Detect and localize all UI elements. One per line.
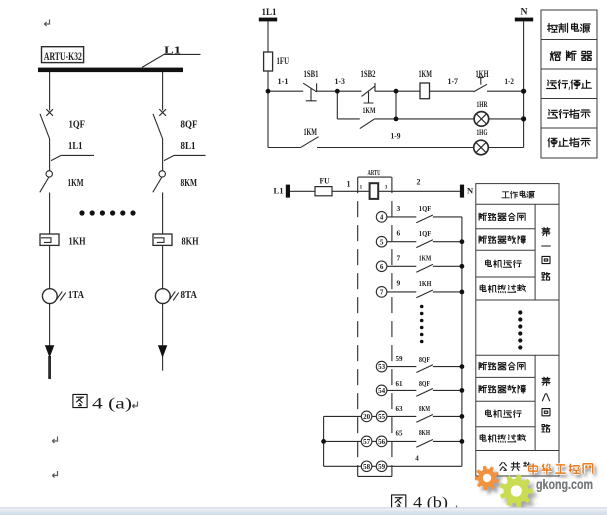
svg-text:9: 9 [397, 279, 401, 288]
svg-text:1HG: 1HG [477, 127, 488, 137]
svg-text:1-3: 1-3 [335, 76, 346, 86]
svg-text:1QF: 1QF [419, 204, 432, 213]
svg-text:1-7: 1-7 [448, 76, 459, 86]
svg-text:6: 6 [397, 229, 401, 238]
svg-text:63: 63 [396, 405, 404, 413]
svg-text:1-2: 1-2 [505, 76, 515, 86]
svg-text:6: 6 [380, 263, 384, 271]
svg-text:8TA: 8TA [181, 290, 198, 301]
svg-text:1SB1: 1SB1 [304, 70, 319, 80]
svg-text:1-9: 1-9 [391, 130, 401, 140]
svg-text:1TA: 1TA [68, 290, 84, 301]
svg-text:1KM: 1KM [363, 105, 376, 115]
svg-text:1HR: 1HR [477, 99, 489, 109]
svg-text:L1: L1 [164, 44, 181, 56]
svg-text:1KM: 1KM [68, 178, 84, 189]
svg-text:1L1: 1L1 [68, 141, 83, 152]
svg-text:1QF: 1QF [69, 120, 86, 131]
svg-text:3: 3 [397, 204, 401, 213]
svg-text:ARTU: ARTU [368, 169, 381, 177]
svg-text:1KH: 1KH [419, 279, 432, 288]
svg-text:8QF: 8QF [419, 379, 430, 388]
svg-text:8L1: 8L1 [181, 141, 196, 152]
svg-text:1-1: 1-1 [278, 76, 289, 86]
svg-text:4: 4 [380, 214, 384, 222]
svg-text:7: 7 [397, 253, 401, 262]
svg-text:1QF: 1QF [419, 229, 432, 238]
svg-text:1L1: 1L1 [262, 8, 277, 18]
svg-text:2: 2 [417, 178, 421, 187]
svg-text:58: 58 [363, 463, 371, 471]
svg-text:61: 61 [396, 380, 404, 388]
svg-text:L1: L1 [274, 185, 284, 195]
svg-text:3: 3 [385, 185, 388, 191]
svg-text:1SB2: 1SB2 [361, 70, 376, 80]
svg-text:8KH: 8KH [182, 237, 199, 248]
svg-text:8QF: 8QF [181, 120, 198, 131]
svg-text:FU: FU [320, 175, 330, 185]
svg-text:4 (a): 4 (a) [92, 396, 132, 413]
svg-text:1KH: 1KH [69, 237, 86, 248]
svg-text:1FU: 1FU [277, 57, 290, 67]
svg-text:N: N [521, 8, 528, 18]
svg-text:57: 57 [363, 438, 371, 446]
svg-text:5: 5 [380, 238, 384, 246]
svg-text:1: 1 [347, 179, 351, 188]
svg-text:ARTU-K32: ARTU-K32 [44, 51, 82, 63]
svg-text:1KM: 1KM [419, 254, 432, 263]
svg-text:56: 56 [378, 438, 386, 446]
svg-text:1KH: 1KH [476, 70, 489, 80]
svg-text:59: 59 [378, 463, 386, 471]
svg-text:4: 4 [415, 455, 419, 463]
svg-text:7: 7 [380, 289, 384, 297]
svg-text:8QF: 8QF [419, 355, 430, 364]
svg-text:gkong.com: gkong.com [536, 477, 593, 492]
svg-text:8KM: 8KM [181, 178, 198, 189]
svg-text:1: 1 [360, 185, 363, 191]
svg-text:20: 20 [363, 413, 371, 421]
svg-text:54: 54 [378, 387, 386, 395]
svg-text:1KM: 1KM [419, 70, 433, 80]
svg-text:1KM: 1KM [304, 127, 318, 137]
svg-text:59: 59 [396, 355, 404, 363]
svg-text:N: N [467, 185, 474, 195]
svg-text:53: 53 [378, 363, 386, 371]
svg-text:65: 65 [396, 430, 404, 438]
svg-text:8KM: 8KM [419, 404, 430, 413]
svg-text:8KH: 8KH [419, 428, 430, 437]
svg-text:55: 55 [378, 413, 386, 421]
